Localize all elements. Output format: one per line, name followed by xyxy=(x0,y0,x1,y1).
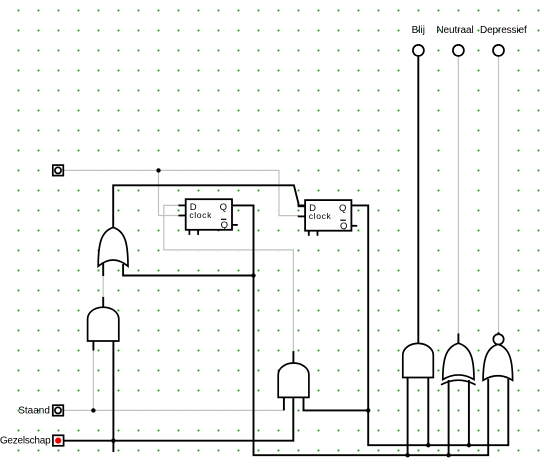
svg-text:Neutraal: Neutraal xyxy=(436,25,473,36)
svg-text:Gezelschap: Gezelschap xyxy=(0,435,51,446)
svg-text:Blij: Blij xyxy=(412,25,425,36)
svg-text:Depressief: Depressief xyxy=(480,25,527,36)
svg-text:Staand: Staand xyxy=(18,405,50,416)
